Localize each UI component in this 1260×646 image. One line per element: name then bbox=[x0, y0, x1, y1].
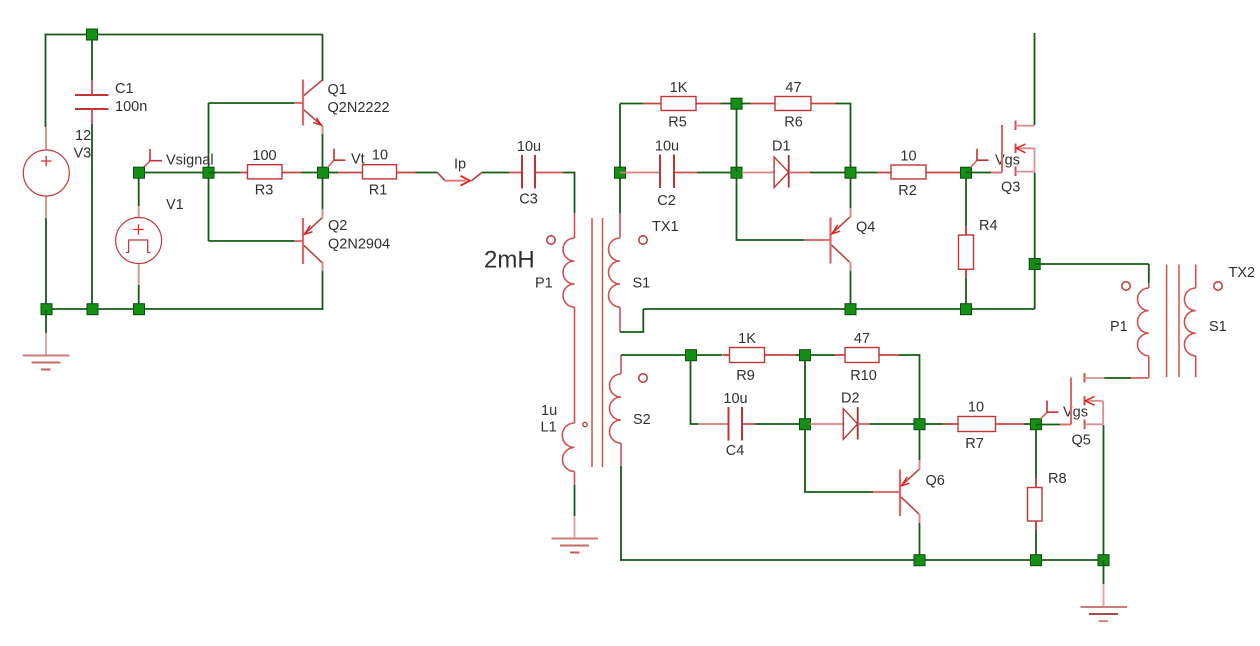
wire mid column to Q4 base bbox=[737, 108, 805, 240]
node D1 anode junction bbox=[731, 167, 742, 178]
capacitor C4 bbox=[698, 391, 755, 459]
winding P1 (TX2) bbox=[1110, 264, 1149, 378]
pulse source V1 bbox=[116, 197, 184, 285]
capacitor C3 bbox=[509, 139, 563, 208]
wire to TX2 primary top bbox=[1035, 263, 1149, 265]
winding S1 bbox=[609, 178, 651, 332]
node R9 left junction bbox=[686, 350, 697, 361]
wire Q2 collector column bbox=[322, 262, 324, 271]
svg-text:D2: D2 bbox=[841, 391, 860, 407]
wire signal row bbox=[139, 172, 209, 174]
svg-text:C1: C1 bbox=[115, 81, 134, 97]
wire R10 to right column bbox=[899, 355, 920, 419]
wire Q5 source column bbox=[1103, 425, 1105, 560]
svg-text:V1: V1 bbox=[166, 197, 184, 213]
node R4 rail junction bbox=[961, 304, 972, 315]
svg-text:2mH: 2mH bbox=[484, 247, 535, 274]
ground (left) bbox=[23, 310, 70, 370]
wire R7 to Q5 gate node bbox=[1024, 423, 1036, 425]
wire bottom rail (bottom-right circuit) bbox=[621, 559, 1104, 561]
svg-text:V3: V3 bbox=[74, 146, 92, 162]
svg-text:D1: D1 bbox=[772, 139, 791, 155]
wire Q4 emitter column bbox=[850, 178, 852, 208]
svg-text:10u: 10u bbox=[655, 139, 679, 155]
wire C1 column bbox=[91, 35, 93, 310]
svg-text:1u: 1u bbox=[541, 403, 557, 419]
resistor R8 bbox=[1028, 429, 1067, 555]
node base junction bbox=[203, 167, 214, 178]
wire Q3 source column bbox=[1034, 173, 1036, 310]
inductor L1 bbox=[541, 403, 588, 485]
svg-text:TX1: TX1 bbox=[652, 219, 679, 235]
wire S2 top row bbox=[621, 354, 722, 356]
node Q6 collector rail junction bbox=[914, 555, 925, 566]
probe Vt bbox=[328, 149, 365, 168]
svg-text:10: 10 bbox=[372, 148, 388, 164]
ground (bottom-right) bbox=[1081, 560, 1128, 621]
transformer core TX1 bbox=[592, 218, 603, 467]
node top rail junction bbox=[87, 29, 98, 40]
svg-text:Q1: Q1 bbox=[328, 82, 347, 98]
svg-text:Q2N2222: Q2N2222 bbox=[328, 100, 390, 116]
wire S1 bottom jog bbox=[620, 309, 643, 332]
wire bottom rail (top-right circuit) bbox=[643, 308, 1034, 310]
svg-text:R9: R9 bbox=[736, 368, 755, 384]
svg-text:Ip: Ip bbox=[454, 157, 466, 173]
wire R6 to right column bbox=[836, 104, 851, 168]
wire Q1 collector column bbox=[322, 35, 324, 82]
wire R1 to Ip bbox=[416, 172, 438, 174]
svg-text:47: 47 bbox=[785, 80, 801, 96]
node bottom rail junction C bbox=[134, 304, 145, 315]
wire D2 to R7 bbox=[870, 423, 920, 425]
svg-text:C2: C2 bbox=[657, 193, 676, 209]
wire C3 to TX1 primary bbox=[563, 173, 575, 214]
resistor R9 bbox=[723, 331, 797, 384]
svg-text:1K: 1K bbox=[670, 80, 688, 96]
svg-text:TX2: TX2 bbox=[1229, 265, 1256, 281]
mosfet Q5 bbox=[1036, 373, 1105, 449]
wire base column bbox=[208, 103, 210, 241]
node C2 left junction bbox=[615, 167, 626, 178]
svg-text:Vsignal: Vsignal bbox=[166, 153, 214, 169]
wire left column bbox=[45, 34, 48, 311]
node bottom rail junction B bbox=[87, 304, 98, 315]
capacitor C2 bbox=[620, 139, 697, 210]
svg-text:S2: S2 bbox=[633, 412, 651, 428]
svg-text:P1: P1 bbox=[1110, 319, 1128, 335]
node bottom rail junction A bbox=[41, 304, 52, 315]
wire R5 row bbox=[620, 103, 643, 105]
resistor R7 bbox=[925, 400, 1024, 453]
winding P1 bbox=[484, 213, 575, 423]
svg-text:R10: R10 bbox=[850, 368, 877, 384]
node ground rail junction bbox=[1098, 555, 1109, 566]
voltage source V3 bbox=[23, 127, 91, 218]
node R3-R1 junction bbox=[318, 167, 329, 178]
svg-text:Vgs: Vgs bbox=[995, 153, 1020, 169]
transformer core TX2 bbox=[1167, 265, 1179, 378]
resistor R1 bbox=[328, 148, 416, 199]
node Q3 source TX2 junction bbox=[1029, 259, 1040, 270]
node Q3 gate junction bbox=[961, 167, 972, 178]
winding S2 bbox=[610, 355, 651, 466]
mosfet Q3 bbox=[966, 121, 1035, 196]
wire bottom rail bbox=[46, 308, 323, 310]
node R9-R10 junction bbox=[800, 350, 811, 361]
svg-text:R4: R4 bbox=[979, 218, 998, 234]
svg-text:Q6: Q6 bbox=[926, 473, 945, 489]
svg-text:1K: 1K bbox=[738, 331, 756, 347]
wire left column to C4 row bbox=[691, 360, 700, 424]
probe Vgs (Q3) bbox=[971, 149, 1021, 169]
wire S2 bottom column bbox=[620, 466, 622, 561]
transistor Q4 bbox=[804, 217, 875, 263]
transistor Q1 bbox=[294, 80, 390, 126]
resistor R6 bbox=[751, 80, 836, 131]
svg-text:10: 10 bbox=[968, 400, 984, 416]
diode D2 bbox=[810, 391, 870, 440]
svg-text:R7: R7 bbox=[965, 436, 984, 452]
wire D1 to R2 bbox=[810, 172, 851, 174]
svg-text:100: 100 bbox=[252, 148, 276, 164]
svg-text:47: 47 bbox=[854, 331, 870, 347]
svg-text:R2: R2 bbox=[898, 183, 917, 199]
wire V1 column bbox=[138, 178, 140, 309]
wire top rail bbox=[46, 34, 323, 36]
node D1-R2-Q4 junction bbox=[845, 167, 856, 178]
wire Q2 base lead bbox=[209, 240, 295, 242]
svg-text:Vgs: Vgs bbox=[1063, 405, 1088, 421]
svg-text:C4: C4 bbox=[726, 443, 745, 459]
node D2 anode junction bbox=[800, 419, 811, 430]
svg-text:Q2N2904: Q2N2904 bbox=[328, 237, 390, 253]
svg-text:P1: P1 bbox=[535, 276, 553, 292]
wire Q3 drain column bbox=[1034, 33, 1036, 125]
svg-text:R3: R3 bbox=[255, 183, 274, 199]
probe Vsignal bbox=[143, 149, 214, 169]
svg-text:R5: R5 bbox=[668, 115, 687, 131]
transistor Q2 bbox=[294, 218, 390, 264]
svg-text:Q3: Q3 bbox=[1001, 180, 1020, 196]
wire Q4 collector column bbox=[850, 262, 852, 271]
node Q4 collector rail junction bbox=[845, 304, 856, 315]
wire Q6 emitter column bbox=[919, 429, 921, 460]
svg-text:S1: S1 bbox=[1209, 319, 1227, 335]
svg-text:R6: R6 bbox=[784, 115, 803, 131]
svg-text:R1: R1 bbox=[369, 183, 388, 199]
svg-text:10u: 10u bbox=[723, 391, 747, 407]
svg-text:Q2: Q2 bbox=[328, 218, 347, 234]
wire C4 to D2 bbox=[755, 423, 805, 425]
wire S1 top column bbox=[619, 104, 621, 168]
wire Q1 base lead bbox=[209, 102, 295, 104]
svg-text:10u: 10u bbox=[517, 139, 541, 155]
node Vsignal junction bbox=[134, 167, 145, 178]
transistor Q6 bbox=[873, 469, 945, 516]
resistor R3 bbox=[209, 148, 324, 199]
svg-text:L1: L1 bbox=[541, 420, 557, 436]
resistor R10 bbox=[835, 331, 899, 384]
node Q5 gate junction bbox=[1031, 419, 1042, 430]
capacitor C1 bbox=[75, 80, 147, 124]
svg-text:Q5: Q5 bbox=[1072, 433, 1091, 449]
svg-text:10: 10 bbox=[900, 148, 916, 164]
svg-text:100n: 100n bbox=[115, 99, 147, 115]
wire C2 to D1 bbox=[697, 172, 737, 174]
diode D1 bbox=[742, 139, 810, 188]
resistor R2 bbox=[856, 148, 964, 199]
node R8 rail junction bbox=[1031, 555, 1042, 566]
wire Q2 emitter column bbox=[322, 174, 324, 209]
wire R2 to Q3 gate node bbox=[960, 172, 966, 174]
node D2-R7-Q6 junction bbox=[914, 419, 925, 430]
svg-text:12: 12 bbox=[75, 128, 91, 144]
node R5-R6 junction bbox=[731, 98, 742, 109]
wire Ip to C3 bbox=[482, 172, 509, 174]
svg-text:Q4: Q4 bbox=[856, 220, 875, 236]
wire R9 to R10 bbox=[796, 354, 835, 356]
wire Q5 drain to TX2 bbox=[1105, 377, 1132, 379]
svg-text:R8: R8 bbox=[1048, 471, 1067, 487]
wire R5 to R6 bbox=[721, 103, 751, 105]
winding S1 (TX2) bbox=[1184, 265, 1226, 378]
current arrow Ip bbox=[437, 157, 482, 186]
ground (TX1) bbox=[552, 485, 599, 553]
wire Q1 emitter column bbox=[322, 126, 324, 134]
svg-text:C3: C3 bbox=[519, 192, 538, 208]
wire D2 anode column bbox=[804, 360, 806, 419]
probe Vgs (Q5) bbox=[1041, 401, 1089, 421]
svg-text:S1: S1 bbox=[633, 276, 651, 292]
wire Q6 collector column bbox=[919, 514, 921, 523]
resistor R4 bbox=[959, 178, 998, 304]
wire D2 anode column to Q6 base bbox=[805, 429, 873, 492]
resistor R5 bbox=[643, 80, 721, 131]
